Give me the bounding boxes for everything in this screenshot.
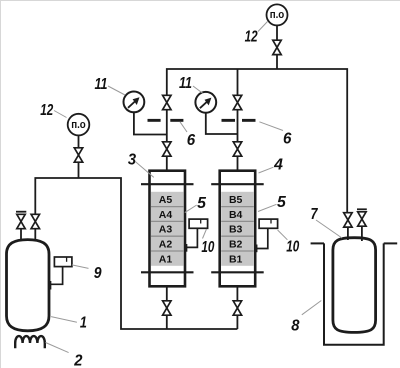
svg-text:8: 8 xyxy=(291,317,300,334)
label 6a leader xyxy=(180,122,187,132)
label 10b leader xyxy=(278,230,288,240)
label 3 leader xyxy=(135,162,153,178)
wire vessel1 inlet stem xyxy=(34,229,36,242)
svg-text:12: 12 xyxy=(40,102,53,119)
label 11b leader xyxy=(193,86,203,94)
vessel 7 vent overbar xyxy=(357,208,367,210)
svg-text:11: 11 xyxy=(179,75,192,92)
svg-text:5: 5 xyxy=(197,195,206,212)
scan border left xyxy=(0,0,2,368)
valve (below top vent 12) xyxy=(273,40,281,54)
svg-text:2: 2 xyxy=(73,353,83,368)
column 4 packing sections B1-B5 xyxy=(221,192,254,266)
gauge 11a xyxy=(123,92,144,113)
sensor 9 xyxy=(51,257,72,290)
svg-text:A3: A3 xyxy=(159,224,173,236)
column 4 body xyxy=(220,171,256,287)
wire stem of normally-open vent 12 (top) xyxy=(276,25,278,69)
wire stem of normally-open vent 12 (left) xyxy=(78,136,80,178)
svg-text:п.о: п.о xyxy=(270,9,285,21)
label 10a leader xyxy=(203,229,207,239)
wire gauge 11b stem xyxy=(206,112,238,134)
valve (vessel 7 vent) xyxy=(358,212,366,226)
label 11a leader xyxy=(108,86,125,95)
sensor 10a xyxy=(187,219,208,252)
wire vessel1 to bottom manifold xyxy=(35,178,237,329)
svg-text:3: 3 xyxy=(128,151,137,168)
column 3 lower flange xyxy=(141,271,194,273)
svg-text:7: 7 xyxy=(311,206,319,223)
column 3 upper flange xyxy=(141,183,194,185)
wire column A upper chain xyxy=(166,110,168,171)
valve (below column A) xyxy=(163,301,171,315)
wire drop to column B valve xyxy=(237,69,239,96)
filter 6a dashes xyxy=(148,119,184,122)
svg-text:1: 1 xyxy=(80,315,87,332)
column 3 body xyxy=(150,171,186,287)
label 12 (left) leader xyxy=(54,111,67,118)
vessel 1 vent overbar xyxy=(16,211,26,213)
svg-text:4: 4 xyxy=(273,156,283,173)
svg-text:B5: B5 xyxy=(229,194,243,206)
svg-text:п.о: п.о xyxy=(71,119,86,131)
wire vessel7 vent stem xyxy=(361,226,363,241)
valve (below column B) xyxy=(233,301,241,315)
svg-text:A1: A1 xyxy=(159,253,173,265)
wire vessel7 inlet stem xyxy=(347,227,349,240)
vessel 7 xyxy=(333,238,376,333)
svg-text:6: 6 xyxy=(283,131,292,148)
svg-text:A4: A4 xyxy=(159,209,173,221)
svg-text:B3: B3 xyxy=(229,224,243,236)
svg-text:10: 10 xyxy=(286,238,299,255)
dewar 8 xyxy=(311,243,398,344)
svg-text:9: 9 xyxy=(94,265,102,282)
valve (above column A) xyxy=(163,142,171,156)
svg-text:A2: A2 xyxy=(159,239,173,251)
label 5b leader xyxy=(258,204,277,211)
scan border top xyxy=(0,0,400,2)
valve (vessel 1 inlet) xyxy=(31,214,39,228)
valve (vessel 7 inlet) xyxy=(344,213,352,227)
svg-text:B2: B2 xyxy=(229,239,243,251)
wire column B bottom xyxy=(236,286,238,329)
wire top manifold xyxy=(167,69,347,213)
label 5a leader xyxy=(185,205,197,213)
valve (below left vent 12) xyxy=(74,148,82,162)
wire vessel1 vent stem xyxy=(20,229,22,242)
label 4 leader xyxy=(259,167,274,173)
label 1 leader xyxy=(51,317,77,323)
label 7 leader xyxy=(316,220,342,238)
valve (above column B) xyxy=(233,142,241,156)
label 6b leader xyxy=(259,122,283,131)
wire column A bottom xyxy=(166,286,168,329)
svg-text:A5: A5 xyxy=(159,194,173,206)
valve (vessel 1 vent) xyxy=(17,214,25,228)
column 4 upper flange xyxy=(211,183,264,185)
vessel 1 xyxy=(7,240,50,331)
svg-text:12: 12 xyxy=(245,28,258,45)
column 4 lower flange xyxy=(211,271,264,273)
label 9 leader xyxy=(72,265,89,269)
column 3 packing sections A1-A5 xyxy=(151,192,184,266)
svg-text:11: 11 xyxy=(95,76,108,93)
svg-text:10: 10 xyxy=(201,239,214,256)
wire gauge 11a stem xyxy=(134,112,167,134)
svg-text:5: 5 xyxy=(277,194,286,211)
label 2 leader xyxy=(46,343,69,353)
gauge 11b xyxy=(195,92,216,113)
normally-open vent circle 12 (top) xyxy=(267,4,288,25)
normally-open vent circle 12 (left) xyxy=(68,114,90,136)
filter 6b dashes xyxy=(222,119,256,122)
valve (manifold above column A) xyxy=(163,95,171,109)
wire column B upper chain xyxy=(237,110,239,171)
label 12 (top) leader xyxy=(258,22,268,32)
sensor 10b xyxy=(257,219,278,252)
valve (manifold above column B) xyxy=(233,95,241,109)
label 8 leader xyxy=(302,301,322,315)
svg-text:B4: B4 xyxy=(229,209,243,221)
svg-text:6: 6 xyxy=(187,132,196,149)
svg-text:B1: B1 xyxy=(229,253,243,265)
heater coil 2 xyxy=(15,336,45,348)
